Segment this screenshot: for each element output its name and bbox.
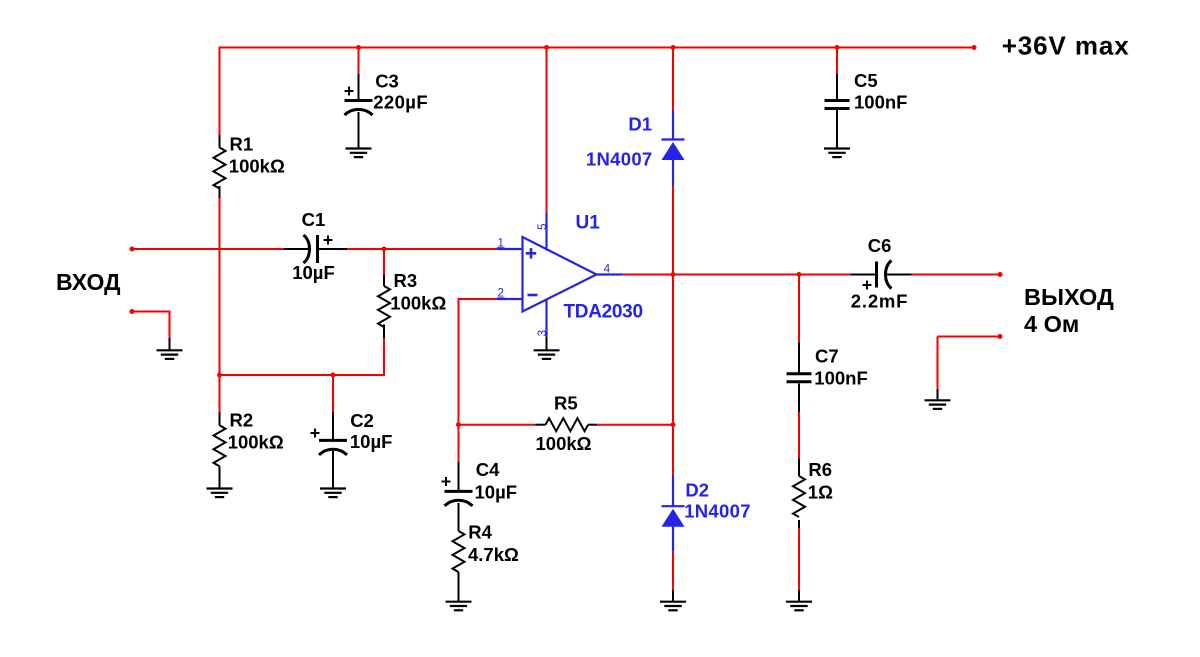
svg-text:10µF: 10µF — [350, 431, 393, 452]
svg-text:R4: R4 — [468, 522, 492, 543]
svg-text:100kΩ: 100kΩ — [229, 155, 285, 176]
svg-text:C2: C2 — [350, 410, 374, 431]
svg-text:R2: R2 — [230, 410, 254, 431]
svg-text:U1: U1 — [576, 213, 601, 234]
svg-text:100kΩ: 100kΩ — [228, 432, 284, 453]
svg-text:10µF: 10µF — [292, 262, 335, 283]
svg-text:100kΩ: 100kΩ — [390, 293, 446, 314]
svg-text:220µF: 220µF — [373, 92, 428, 113]
svg-text:C3: C3 — [375, 70, 399, 91]
svg-text:R3: R3 — [394, 270, 418, 291]
svg-text:ВЫХОД: ВЫХОД — [1024, 284, 1114, 310]
svg-text:1N4007: 1N4007 — [684, 501, 751, 522]
svg-text:1Ω: 1Ω — [808, 482, 833, 503]
svg-text:10µF: 10µF — [475, 481, 518, 502]
svg-text:R5: R5 — [554, 393, 578, 414]
svg-text:D1: D1 — [628, 114, 652, 135]
svg-text:R1: R1 — [230, 134, 254, 155]
svg-text:4.7kΩ: 4.7kΩ — [468, 544, 519, 565]
svg-text:1N4007: 1N4007 — [586, 149, 653, 170]
svg-text:R6: R6 — [808, 459, 832, 480]
svg-text:C1: C1 — [302, 209, 326, 230]
svg-text:TDA2030: TDA2030 — [564, 302, 643, 323]
svg-text:4 Ом: 4 Ом — [1024, 311, 1079, 337]
svg-text:D2: D2 — [685, 480, 709, 501]
svg-text:+36V max: +36V max — [1002, 30, 1130, 60]
svg-text:C7: C7 — [815, 346, 839, 367]
svg-text:5: 5 — [537, 224, 549, 230]
svg-text:100nF: 100nF — [854, 91, 907, 112]
svg-text:3: 3 — [537, 330, 549, 336]
svg-text:2.2mF: 2.2mF — [851, 291, 908, 312]
svg-text:C6: C6 — [868, 235, 892, 256]
svg-text:C4: C4 — [476, 459, 500, 480]
svg-text:100nF: 100nF — [814, 368, 867, 389]
svg-text:ВХОД: ВХОД — [56, 269, 120, 295]
svg-text:C5: C5 — [854, 70, 878, 91]
svg-text:100kΩ: 100kΩ — [536, 433, 592, 454]
